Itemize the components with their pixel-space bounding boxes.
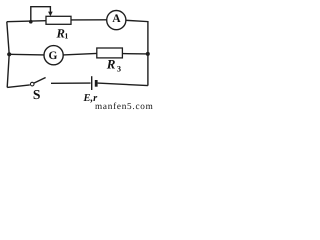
bottom wire left segment [7,85,30,88]
wire battery to bottom-right corner [98,83,148,86]
wire R1 to ammeter [71,19,107,21]
battery E,r short plate [95,80,98,87]
junction dot (right vertical / middle branch) [146,52,150,56]
left vertical wire [7,22,9,88]
junction dot (left vertical / middle branch) [7,52,11,56]
svg-text:S: S [33,87,41,102]
wire top-left segment [7,21,46,22]
wire G to R3 [63,53,97,55]
wire switch to battery [51,82,91,84]
galvanometer G [44,46,63,65]
resistor R3 [97,48,123,58]
wire R3 to right vertical [122,53,147,55]
switch S pivot [30,82,34,86]
junction dot (tap to top wire) [29,20,33,24]
svg-text:G: G [48,50,57,62]
svg-text:R: R [106,57,116,72]
svg-text:manfen5.com: manfen5.com [95,101,154,110]
wire ammeter to top-right corner and right vertical wire [126,20,148,85]
switch S lever [34,78,46,84]
wire to galvanometer [9,53,44,56]
rheostat slider arm with arrow [31,7,51,22]
ammeter A [107,11,126,30]
battery E,r long plate [91,76,93,90]
svg-text:A: A [112,12,121,25]
svg-text:1: 1 [64,31,68,40]
svg-text:3: 3 [117,65,121,74]
resistor R1 [46,16,71,24]
